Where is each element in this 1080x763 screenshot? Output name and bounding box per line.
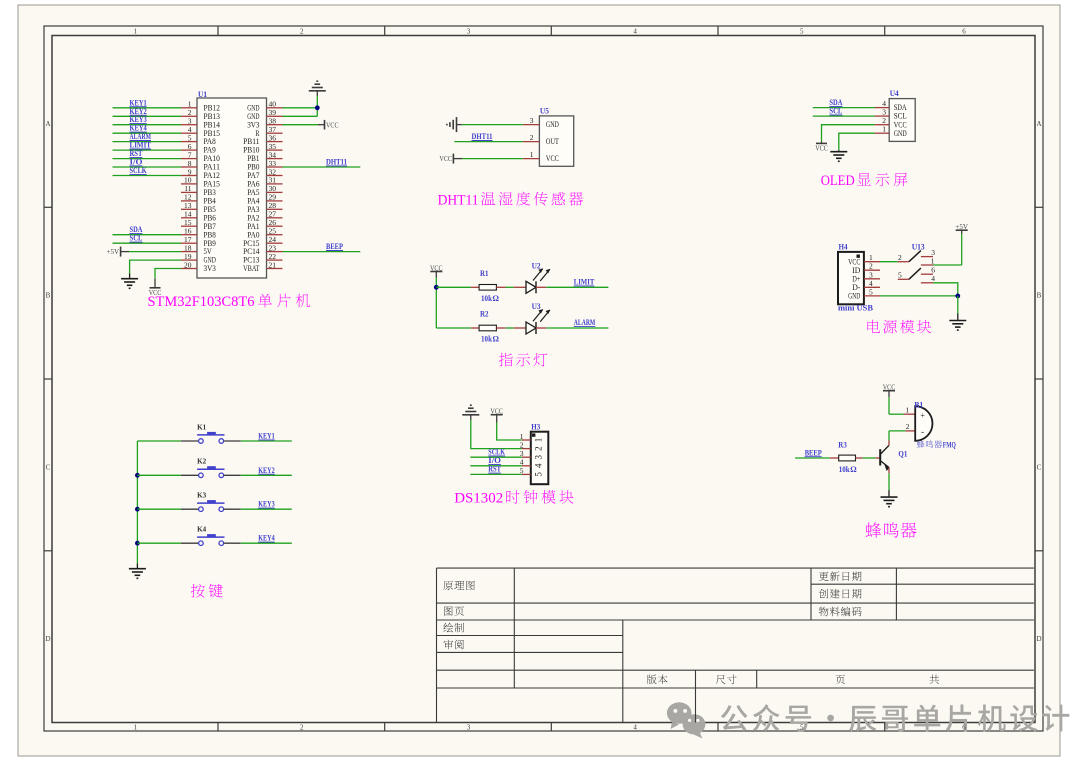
svg-text:5: 5 [869,287,873,296]
svg-text:K2: K2 [197,457,206,466]
svg-text:Q1: Q1 [898,449,907,458]
svg-text:H3: H3 [531,423,540,432]
svg-text:Ω: Ω [493,335,500,344]
svg-text:U5: U5 [540,106,549,115]
svg-text:VCC: VCC [430,263,443,272]
svg-text:2: 2 [300,724,304,732]
svg-text:DHT11: DHT11 [472,132,493,141]
svg-text:VCC: VCC [815,144,828,153]
svg-text:10k: 10k [839,465,850,474]
svg-text:2: 2 [898,253,902,262]
svg-text:U4: U4 [890,89,899,98]
svg-text:3: 3 [467,28,471,36]
svg-text:U3: U3 [532,302,541,311]
svg-text:K3: K3 [197,491,206,500]
svg-text:2: 2 [300,28,304,36]
svg-text:3: 3 [467,724,471,732]
svg-text:SCL: SCL [829,107,842,116]
svg-text:21: 21 [269,260,277,269]
svg-text:2: 2 [534,446,544,451]
svg-text:SCL: SCL [130,234,143,243]
svg-text:STM32F103C8T6: STM32F103C8T6 [148,294,255,310]
svg-text:U1: U1 [198,90,207,99]
svg-text:3: 3 [530,116,534,125]
svg-text:+: + [920,411,925,420]
svg-text:1: 1 [534,438,544,443]
svg-text:FMQ: FMQ [943,441,956,450]
svg-text:+5V: +5V [955,222,968,231]
svg-text:Ω: Ω [850,465,857,474]
svg-text:3: 3 [534,454,544,459]
svg-text:R2: R2 [480,310,489,319]
svg-text:1: 1 [133,28,137,36]
svg-text:VCC: VCC [490,407,503,416]
svg-text:SCLK: SCLK [130,166,148,175]
svg-text:C: C [1037,463,1042,471]
svg-text:1: 1 [931,256,935,265]
svg-text:C: C [46,463,51,471]
svg-text:B1: B1 [914,400,923,409]
svg-text:K1: K1 [197,422,206,431]
svg-text:KEY3: KEY3 [258,500,275,509]
svg-text:1: 1 [882,125,886,134]
svg-text:10k: 10k [481,294,492,303]
svg-text:GND: GND [894,129,907,138]
svg-text:A: A [45,120,50,128]
svg-text:U2: U2 [532,261,541,270]
svg-text:VBAT: VBAT [243,264,259,273]
svg-text:1: 1 [905,406,909,415]
svg-text:6: 6 [962,28,966,36]
svg-text:2: 2 [906,422,910,431]
svg-text:GND: GND [848,292,860,301]
svg-text:4: 4 [931,274,935,283]
svg-text:B: B [46,292,51,300]
svg-text:2: 2 [530,133,534,142]
svg-text:DHT11: DHT11 [326,158,347,167]
svg-text:+5V: +5V [107,247,120,256]
svg-text:3V3: 3V3 [204,264,216,273]
svg-text:LIMIT: LIMIT [574,278,595,287]
svg-text:VCC: VCC [546,154,559,163]
svg-text:RST: RST [488,465,501,474]
svg-text:OUT: OUT [546,137,559,146]
svg-text:5: 5 [898,271,902,280]
svg-text:ALARM: ALARM [574,318,596,327]
svg-text:KEY2: KEY2 [258,466,275,475]
svg-text:5: 5 [800,724,804,732]
svg-text:H4: H4 [839,243,848,252]
svg-text:10k: 10k [481,335,492,344]
svg-text:OLED: OLED [821,173,855,189]
svg-text:VCC: VCC [883,383,896,392]
svg-text:4: 4 [633,724,637,732]
svg-text:1: 1 [530,150,534,159]
svg-text:R3: R3 [838,440,847,449]
svg-text:1: 1 [133,724,137,732]
svg-text:BEEP: BEEP [326,242,343,251]
svg-text:DHT11: DHT11 [438,192,479,208]
svg-text:mini USB: mini USB [838,303,873,313]
svg-text:4: 4 [633,28,637,36]
svg-text:GND: GND [546,120,559,129]
svg-text:KEY4: KEY4 [258,534,275,543]
svg-text:B: B [1037,292,1042,300]
svg-text:DS1302: DS1302 [454,491,503,507]
svg-text:A: A [1036,120,1041,128]
svg-text:VCC: VCC [439,154,452,163]
svg-text:K4: K4 [197,525,206,534]
svg-text:6: 6 [962,724,966,732]
svg-text:Ω: Ω [493,294,500,303]
svg-text:5: 5 [534,472,544,477]
svg-text:R1: R1 [480,269,489,278]
svg-text:U13: U13 [912,243,925,252]
svg-text:BEEP: BEEP [805,448,822,457]
svg-text:D: D [45,635,50,643]
svg-text:KEY1: KEY1 [258,432,275,441]
svg-text:-: - [921,426,924,436]
svg-text:VCC: VCC [326,120,339,129]
svg-text:4: 4 [534,463,544,468]
svg-text:D: D [1036,635,1041,643]
svg-text:5: 5 [800,28,804,36]
svg-text:20: 20 [184,260,192,269]
